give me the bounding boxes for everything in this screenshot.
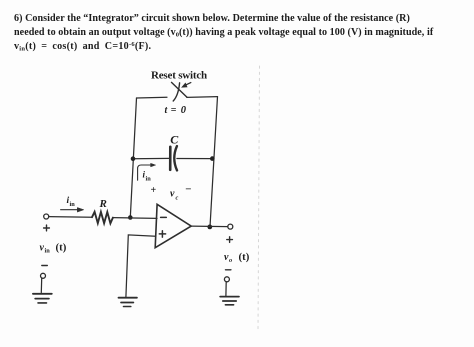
svg-text:−: − [185, 184, 191, 196]
svg-text:v: v [170, 189, 175, 200]
svg-text:Reset switch: Reset switch [151, 70, 207, 82]
svg-text:(t): (t) [239, 251, 250, 263]
svg-text:in: in [70, 201, 76, 208]
svg-text:C: C [170, 132, 179, 146]
svg-text:=: = [171, 105, 177, 116]
svg-text:+: + [151, 185, 157, 196]
svg-text:R: R [99, 198, 107, 210]
svg-text:o: o [229, 257, 232, 264]
svg-text:t: t [165, 105, 169, 116]
svg-text:in: in [146, 176, 152, 183]
svg-text:0: 0 [181, 105, 187, 116]
svg-text:c: c [176, 195, 179, 202]
svg-text:(t): (t) [56, 241, 67, 253]
svg-text:in: in [45, 248, 51, 255]
